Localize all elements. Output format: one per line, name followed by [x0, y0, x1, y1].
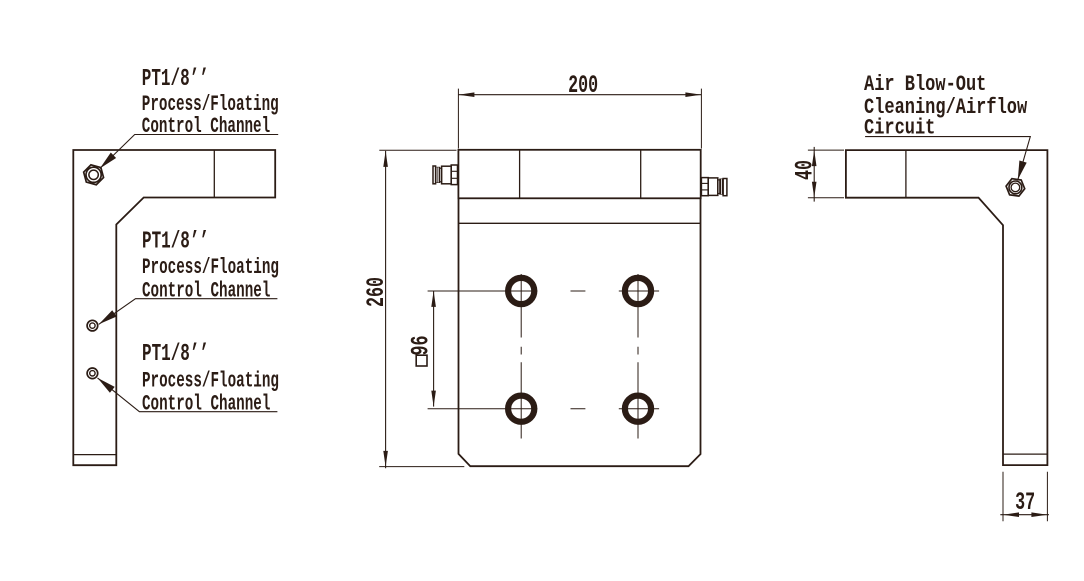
leader line block 1 with underline: [100, 135, 278, 169]
front view top manifold bar: [458, 150, 700, 199]
center line row top: [428, 290, 659, 292]
leader arrow block 2: [99, 310, 117, 324]
svg-text:96: 96: [409, 335, 436, 355]
push-in fitting left (side view): [433, 165, 458, 185]
right view arm divider line: [905, 150, 907, 198]
svg-text:200: 200: [568, 73, 598, 100]
dimension 200 extension lines: [458, 89, 701, 149]
left view small fitting B (bottom PT1/8 port): [87, 368, 98, 379]
dimension 200 line: [458, 94, 701, 96]
front view plate feature line: [459, 222, 701, 224]
front view plate outline with chamfered bottom corners: [459, 198, 701, 466]
svg-text:Control Channel: Control Channel: [142, 390, 270, 416]
leader arrow block 3: [98, 378, 115, 393]
left view outline (L-shaped side plate): [73, 150, 275, 465]
dimension 96 arrows: [431, 291, 436, 307]
right view hex fitting (air blow-out port): [1006, 179, 1025, 196]
square symbol of dimension 96: [416, 355, 427, 366]
svg-text:PT1/8’’: PT1/8’’: [142, 66, 209, 93]
svg-text:Control Channel: Control Channel: [142, 113, 270, 139]
mounting hole 2 (thick ring): [625, 278, 651, 304]
dimension 40 extension lines: [808, 150, 844, 198]
dimension 37 arrows: [1003, 512, 1019, 517]
left view bottom band line: [73, 454, 116, 456]
dimension 200 arrows: [458, 92, 474, 97]
center line column right: [637, 274, 639, 439]
mounting hole 3 (thick ring): [508, 396, 534, 422]
dimension 40 arrows: [812, 150, 817, 166]
dimension 37 extension lines: [1003, 472, 1047, 522]
left view hex fitting (top, PT1/8 port): [84, 165, 104, 185]
leader arrow air blow-out: [1018, 161, 1027, 180]
dimension 96 line: [433, 291, 435, 407]
dimension 260 extension lines: [379, 150, 464, 466]
dimension 260 line: [385, 151, 387, 468]
right view outline (L-shaped side plate mirrored): [846, 150, 1048, 465]
push-in fitting right (side view): [701, 178, 726, 196]
front view bar divider right: [640, 150, 642, 199]
svg-text:40: 40: [793, 160, 820, 180]
mounting hole 4 (thick ring): [625, 396, 651, 422]
leader line air blow-out with underline: [865, 137, 1030, 180]
svg-text:260: 260: [364, 277, 391, 307]
svg-text:PT1/8’’: PT1/8’’: [142, 229, 209, 256]
dimension 40 line: [813, 147, 815, 202]
svg-text:37: 37: [1015, 490, 1035, 517]
left view arm divider line: [213, 150, 215, 198]
mounting hole 1 (thick ring): [508, 278, 534, 304]
leader line block 2 with underline: [99, 299, 278, 325]
svg-text:PT1/8’’: PT1/8’’: [142, 341, 209, 368]
front view bar divider left: [519, 150, 521, 199]
leader line block 3 with underline: [98, 378, 278, 412]
svg-text:Control Channel: Control Channel: [142, 277, 270, 303]
dimension 37 line: [1000, 514, 1049, 516]
svg-text:Process/Floating: Process/Floating: [142, 254, 279, 280]
right view bottom band line: [1003, 453, 1047, 455]
dimension 260 arrows: [383, 151, 388, 167]
center line column left: [520, 274, 522, 439]
leader arrow block 1: [100, 153, 116, 169]
center line row bottom: [428, 408, 659, 410]
left view small fitting A (middle PT1/8 port): [87, 320, 98, 331]
